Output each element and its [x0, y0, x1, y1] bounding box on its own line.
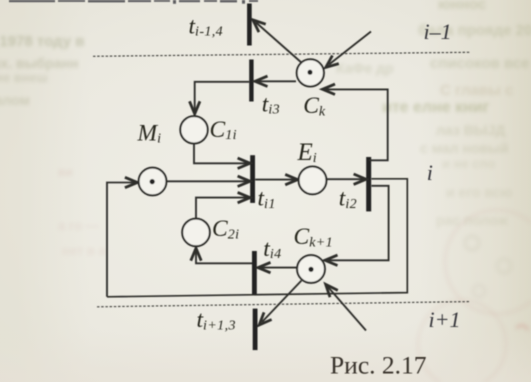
place C1i [180, 116, 207, 143]
transition t_i4 [252, 251, 257, 295]
svg-text:ti3: ti3 [262, 91, 280, 117]
place Ck+1 (with token) [297, 255, 325, 283]
boundary line i+1 (dashed) [97, 302, 469, 307]
wire: feedback loop left vertical + arrow into Mi [107, 177, 137, 296]
transition t_i3 [249, 60, 253, 102]
bleed-through text, left column [0, 33, 84, 50]
wire: arc t_i2 -> Ck+1 (right, down, left with arrow) [325, 186, 389, 266]
place Ei [299, 167, 327, 195]
place C2i [182, 219, 210, 247]
place Ck (with token) [297, 59, 324, 86]
svg-text:ti-1,4: ti-1,4 [189, 13, 224, 39]
svg-text:Рис. 2.17: Рис. 2.17 [330, 351, 427, 380]
wire: arc from lower-right into Ck+1 (diagonal up-left) [326, 284, 366, 330]
svg-text:i: i [427, 160, 433, 185]
place Mi (with token) [139, 168, 167, 196]
wire: arc C1i -> t_i1 (down then right) [194, 144, 250, 169]
wire: arc Mi -> t_i1 [167, 176, 250, 186]
transition t_i2 [366, 157, 371, 211]
svg-text:ti4: ti4 [263, 236, 281, 262]
svg-text:C2i: C2i [212, 216, 239, 242]
wire: arc t_i1 -> Ei [255, 174, 298, 184]
wire: arc t_i3 -> C1i (left then down with arrow) [190, 82, 250, 114]
svg-text:i+1: i+1 [429, 307, 461, 332]
wire: arc C2i -> t_i1 (up then right) [196, 192, 250, 218]
wire: arc from upper-right into Ck [326, 32, 371, 68]
svg-text:C1i: C1i [210, 117, 237, 143]
transition t_i1 [250, 155, 255, 203]
boundary line i-1 (dashed) [93, 52, 470, 56]
wire: arc t_i2 -> Ck (up and left) [323, 84, 388, 160]
wire: feedback arc t_i2 -> Mi (right, down, along bottom) [107, 179, 407, 297]
wire: arc Ck -> t_i3 [255, 76, 296, 86]
svg-text:ti2: ti2 [339, 186, 357, 212]
transition t_i+1,3 [253, 309, 258, 351]
wire: arc t_i4 -> C2i (left then up with arrow) [191, 248, 252, 263]
svg-text:Ck: Ck [303, 93, 326, 119]
bleed-through text, right column [438, 0, 486, 13]
wire: arc Ck+1 -> t_i4 [258, 262, 297, 272]
svg-text:Ck+1: Ck+1 [294, 224, 334, 250]
svg-text:ti+1,3: ti+1,3 [197, 307, 236, 333]
svg-text:i–1: i–1 [424, 19, 452, 44]
wire: arc Ck -> t_i-1,4 (diagonal with up-left arrow) [253, 20, 303, 64]
wire: arc Ei -> t_i2 [327, 174, 366, 184]
svg-text:ti1: ti1 [258, 186, 276, 212]
transition t_i-1,4 [247, 4, 252, 46]
svg-text:Mi: Mi [137, 120, 162, 146]
svg-text:Ei: Ei [297, 139, 318, 166]
wire: arc Ck+1 -> t_i+1,3 (diagonal down-left) [259, 281, 301, 326]
